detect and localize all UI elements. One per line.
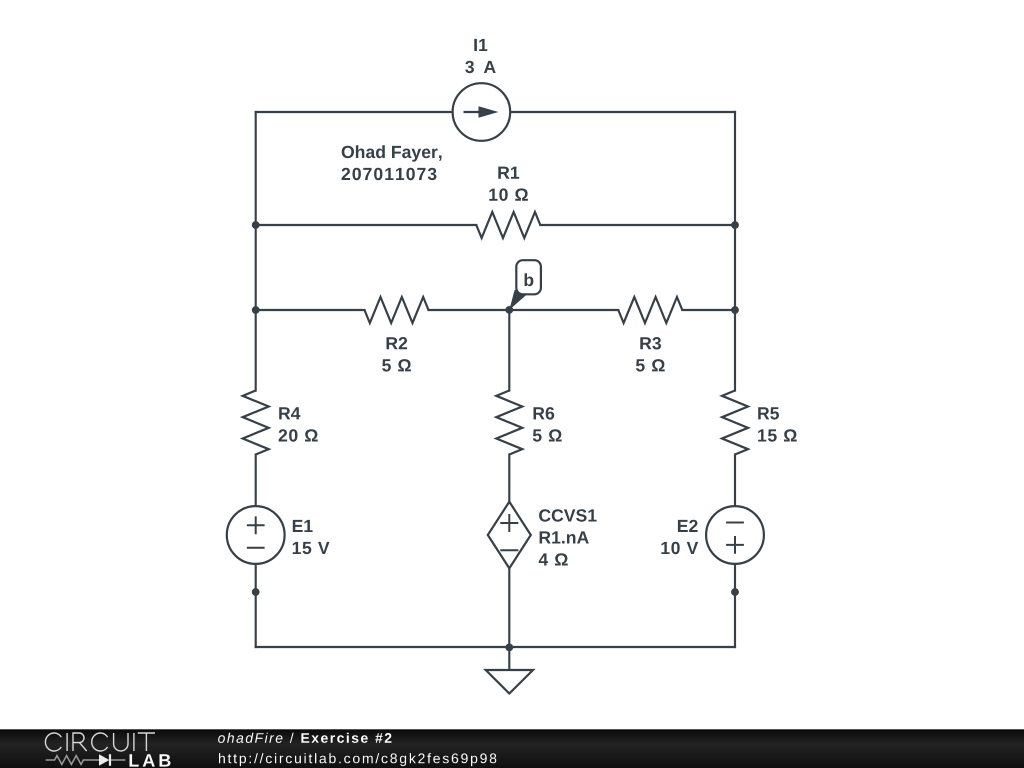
label R4 name [279,407,300,419]
node b flag leader [509,290,526,310]
logo CIRCUIT letter C [45,733,61,751]
wire row1 left of R1 [256,224,477,226]
junction dot left row2 [252,306,260,314]
wire mid rail CCVS1 to bottom [508,568,510,647]
label R5 value [758,429,797,442]
junction dot left below E1 [252,588,260,596]
footer bar [0,729,1024,768]
label R5 name [758,407,779,419]
footer title line [218,733,391,743]
resistor R2 [365,297,429,323]
wire row2 left of R2 [256,309,365,311]
junction dot ground [505,644,513,652]
resistor R6 [496,391,522,455]
wire row2 R2 to node b [429,309,619,311]
label R3 name [640,337,661,350]
logo LAB [130,754,171,766]
wire top rail right of I1 [510,111,735,113]
label CCVS1 ref [540,531,589,543]
current source I1 [453,83,511,141]
wire mid rail R6 to CCVS1 [508,455,510,502]
junction dot right row2 [731,306,739,314]
ground [486,670,533,694]
wire ground stem [508,647,510,670]
label R4 value [279,429,318,442]
annotation line 2 [342,168,437,181]
label R1 name [498,167,519,179]
wire left rail top [255,112,257,391]
wire bottom rail [256,646,735,648]
label R6 value [533,429,562,442]
logo resistor-diode glyph [46,754,126,766]
logo CIRCUIT letter R [73,733,87,751]
logo CIRCUIT letter I2 [133,733,135,751]
footer url line [219,753,496,766]
label R2 name [387,337,408,349]
label E1 value [293,542,330,554]
wire top rail left of I1 [256,111,453,113]
wire row2 right of R3 [682,309,735,311]
junction dot right below E2 [731,588,739,596]
label CCVS1 value [539,553,568,565]
junction dot right row1 [731,221,739,229]
resistor R5 [722,391,748,455]
dependent source CCVS1 [488,502,531,569]
label R3 value [636,359,665,372]
logo CIRCUIT letter C2 [92,733,108,751]
label E2 value [661,542,698,555]
logo CIRCUIT letter T [138,733,155,751]
logo CIRCUIT letter U [114,733,128,751]
voltage source E2 [706,506,764,564]
label R6 name [534,407,555,420]
junction dot left row1 [252,221,260,229]
wire mid rail node b to R6 [508,310,510,391]
label E1 name [293,520,313,532]
wire row1 right of R1 [540,224,735,226]
wire right rail top [734,112,736,391]
label E2 name [678,520,698,532]
annotation line 1 [342,145,442,162]
label CCVS1 name [539,509,597,522]
resistor R1 [476,212,540,238]
label I1 name [474,39,487,51]
wire left rail R4 to E1 [255,455,257,507]
resistor R3 [618,297,682,323]
wire right rail E2 to bottom [734,564,736,647]
node b flag [516,260,541,294]
resistor R4 [243,391,269,455]
label R1 value [489,188,528,201]
label R2 value [382,359,411,372]
junction dot node b [505,306,513,314]
voltage source E1 [227,506,285,564]
label I1 value [465,61,496,73]
wire right rail R5 to E2 [734,455,736,507]
logo CIRCUIT letter I [66,733,68,751]
wire left rail E1 to bottom [255,564,257,647]
